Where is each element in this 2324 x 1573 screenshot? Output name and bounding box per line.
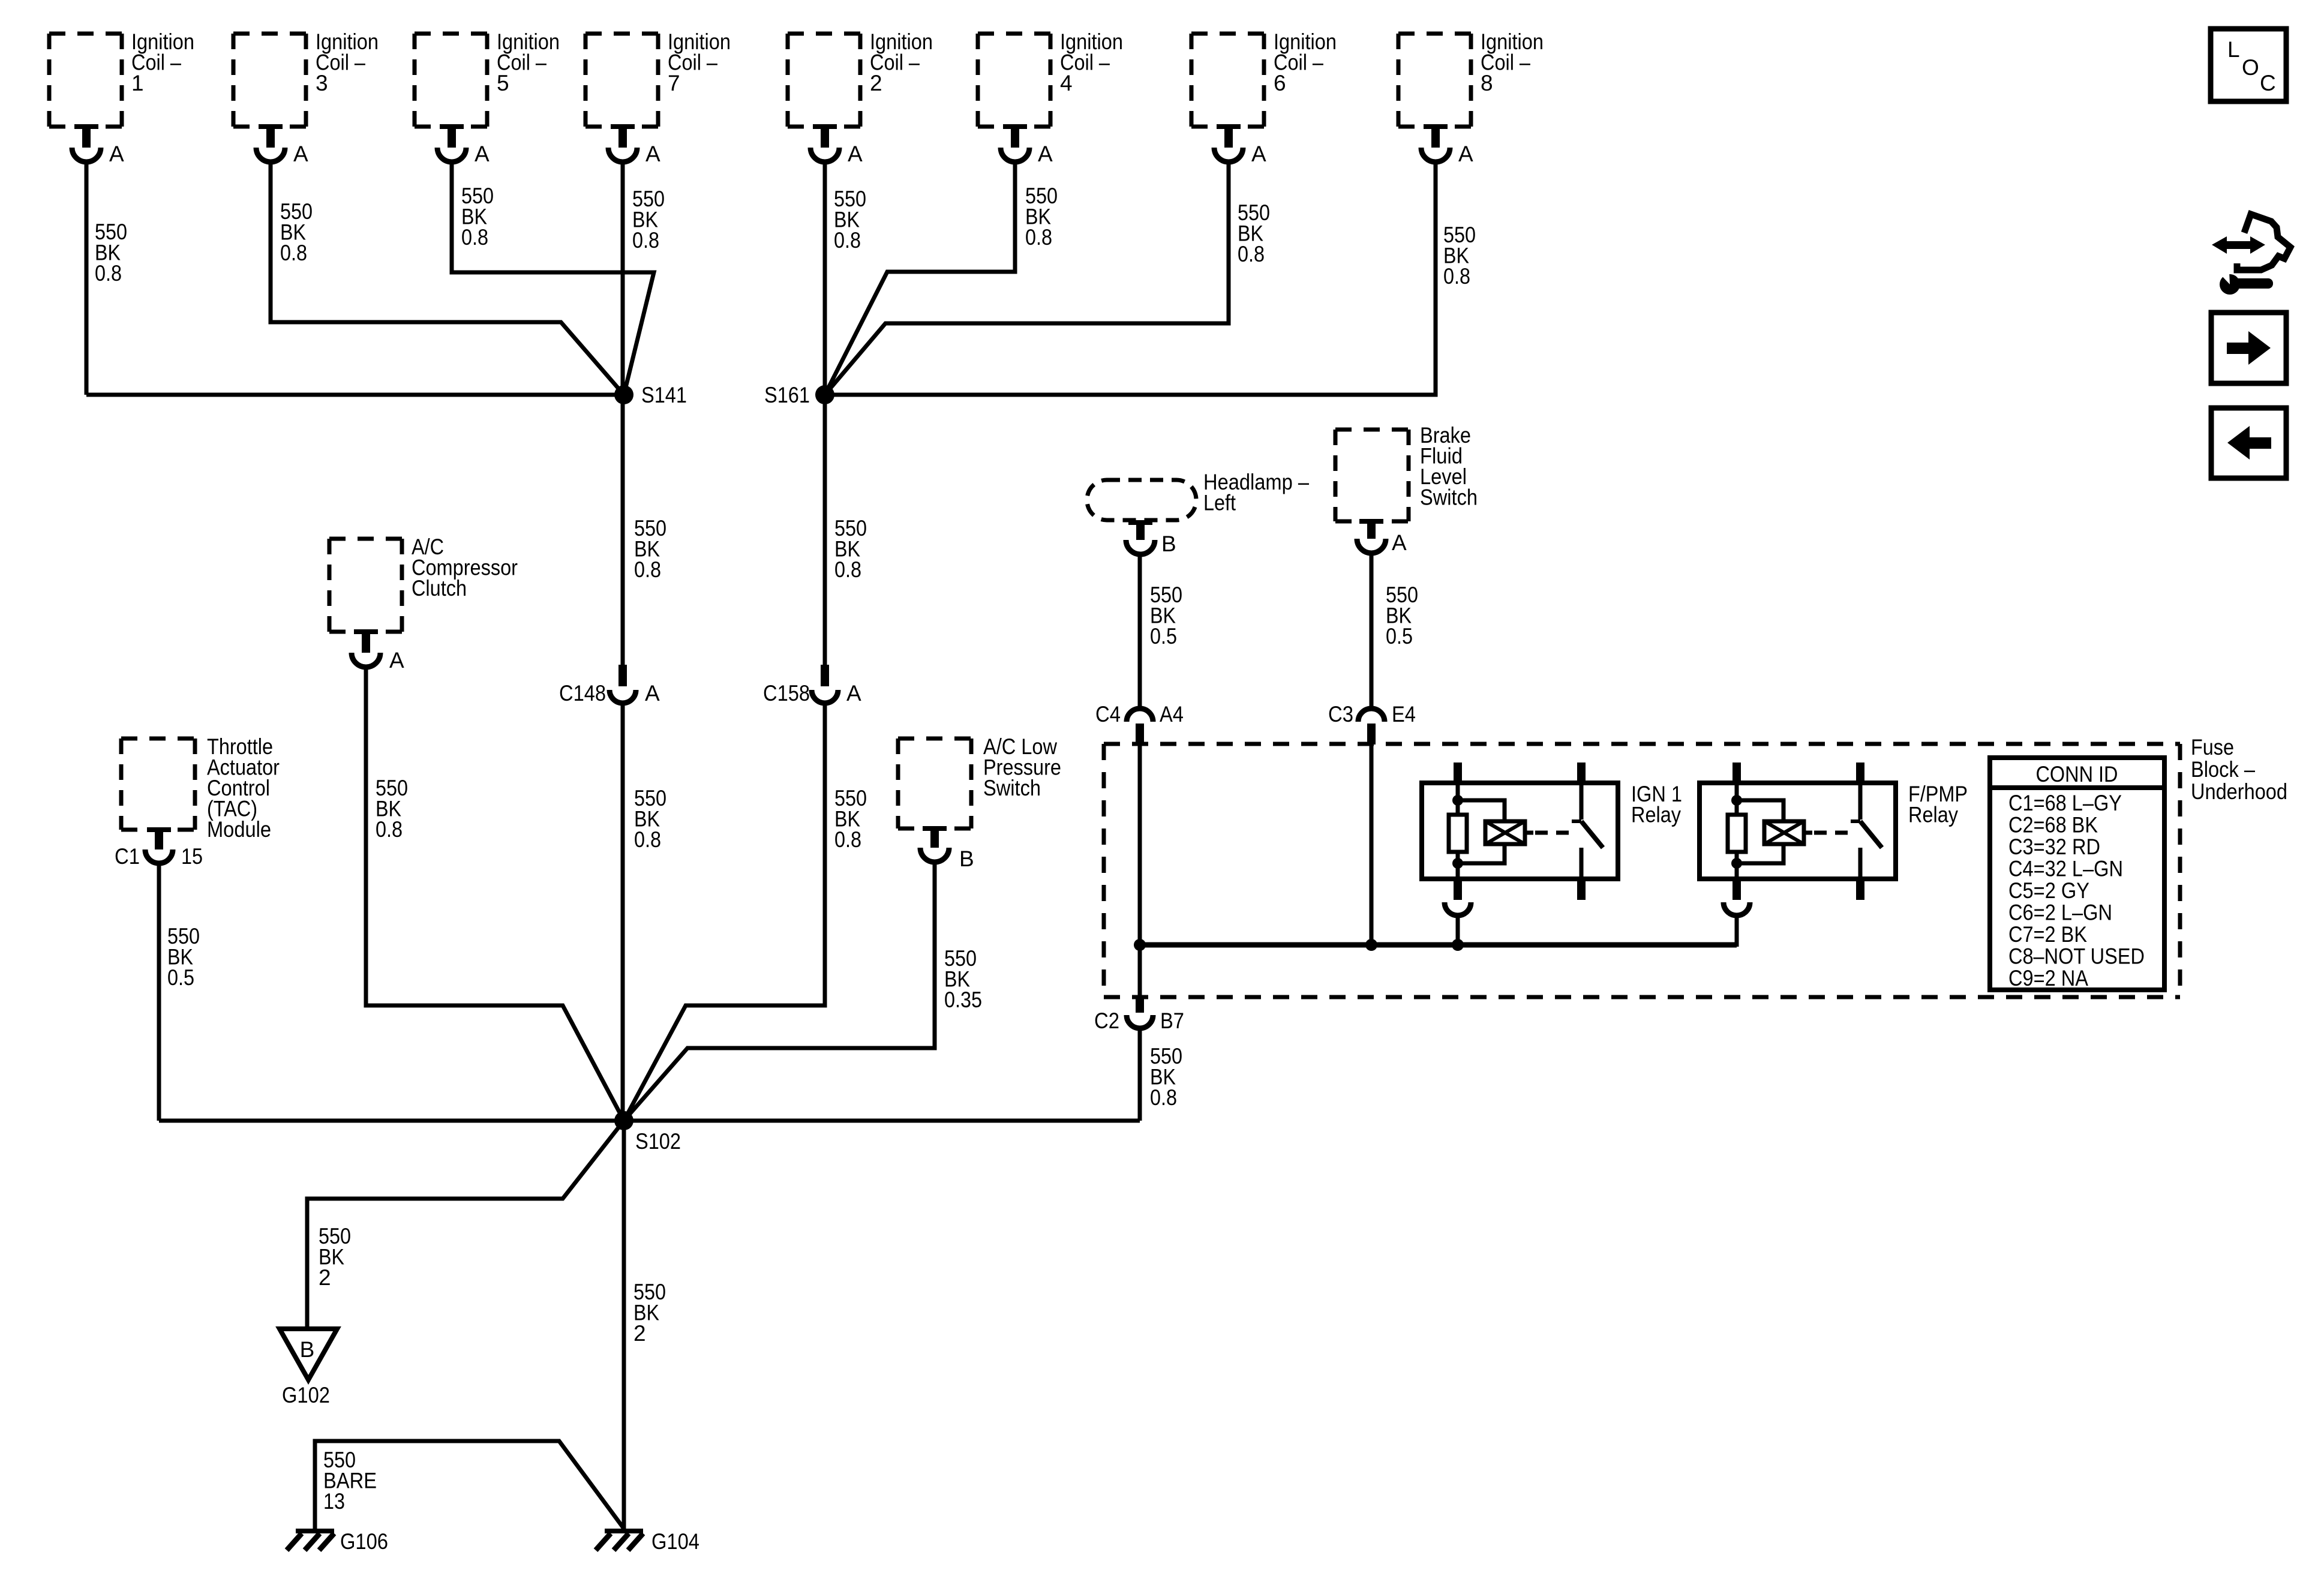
svg-text:4: 4 [1060,71,1073,95]
wire: A/C low pressure switch down, left, diagonal to S102 [624,862,935,1121]
svg-text:0.8: 0.8 [280,241,307,265]
svg-text:A: A [846,681,861,706]
svg-text:G104: G104 [651,1529,699,1554]
svg-text:C: C [2260,71,2276,95]
svg-text:C3=32 RD: C3=32 RD [2008,834,2100,859]
wire label 550 BK 0.35 (A/C low pressure switch) [944,946,982,1012]
svg-text:A: A [1038,142,1053,166]
svg-text:C4=32 L–GN: C4=32 L–GN [2008,857,2123,881]
relay F/PMP: switch blade [1851,819,1860,823]
svg-text:Clutch: Clutch [412,576,467,601]
svg-text:A: A [1251,142,1266,166]
CONN ID table rows [2008,791,2145,990]
ignition coil 3 box (dashed) [233,34,306,127]
svg-text:A: A [389,648,404,673]
svg-text:Underhood: Underhood [2191,779,2287,804]
wire label 550 BK 0.8 (coil 1) [95,220,127,286]
svg-text:C158: C158 [763,681,810,706]
TAC module label [207,734,280,842]
svg-text:CONN ID: CONN ID [2036,762,2118,786]
ignition coil 8 box (dashed) [1398,34,1471,127]
wire: ignition coil 8 pin A down and left to S161 [825,163,1436,395]
throttle actuator control (TAC) module box (dashed) [121,739,195,830]
wire: ignition coil 1 pin A down to S141 horizontal [85,163,89,395]
ignition coil 4 label [1060,29,1123,95]
relay IGN 1: suppression box with X [1485,821,1525,844]
wire: ignition coil 2 pin A trunk down through S161 [823,163,827,665]
svg-text:0.8: 0.8 [632,228,659,253]
wire label 550 BK 0.5 (TAC) [167,924,200,990]
svg-text:0.8: 0.8 [1238,242,1265,266]
wire: C3 down inside fuse block to internal bus [1370,745,1374,945]
junction dot C3 wire / bus [1365,939,1377,951]
wire label 550 BK 0.8 (C158 to S102) [834,786,867,852]
ignition coil 5 label [497,29,560,95]
wire label 550 BK 0.8 (coil 3) [280,199,313,265]
wire: horizontal from coil 1 drop to splice S141 [86,393,624,397]
svg-text:C7=2 BK: C7=2 BK [2008,922,2087,947]
wire: S102 horizontal (TAC C1 to C2) [159,1119,1140,1123]
relay IGN 1: coil bottom junction dot [1452,858,1463,869]
relay F/PMP: coil bottom junction dot [1731,858,1742,869]
relay IGN 1: switch blade [1572,819,1581,823]
check-connector service icon (double arrow, outline, wrench) [2212,214,2290,295]
ignition coil 8 label [1481,29,1544,95]
svg-text:C148: C148 [559,681,606,706]
brake fluid level switch label [1420,423,1478,510]
svg-text:C4: C4 [1095,702,1121,727]
svg-text:L: L [2227,37,2240,62]
wire: ignition coil 7 pin A trunk down through S141 [621,163,625,665]
svg-text:Relay: Relay [1631,803,1681,827]
wire: bus up to F/PMP relay coil connector [1735,917,1739,947]
ignition coil 3 label [316,29,379,95]
svg-text:Block –: Block – [2191,757,2255,782]
svg-text:S141: S141 [641,383,687,407]
ground G102 (triangle ground symbol) [280,1329,337,1380]
svg-text:A: A [645,681,660,706]
wire label 550 BK 0.8 (S161 to C158) [834,516,867,582]
wire label 550 BK 0.8 (coil 5) [461,184,494,250]
wire: C148 down to S102 [621,703,625,1121]
svg-text:Switch: Switch [1420,485,1478,510]
junction dot IGN 1 relay coil / bus [1452,939,1464,951]
svg-text:5: 5 [497,71,509,95]
svg-text:2: 2 [870,71,882,95]
svg-text:C2: C2 [1094,1008,1119,1033]
svg-text:C2=68 BK: C2=68 BK [2008,813,2098,837]
wire label 550 BK 0.8 (A/C clutch) [376,776,408,842]
svg-text:0.5: 0.5 [1150,624,1177,649]
wire: ignition coil 6 pin A down, left, diagonal to S161 [825,163,1229,395]
svg-text:C1=68 L–GY: C1=68 L–GY [2008,791,2122,815]
A/C low pressure switch label [983,734,1061,800]
relay IGN 1: coil top junction dot [1452,795,1463,806]
splice S141 junction dot [614,385,633,404]
ignition coil 1 pin A connector [72,124,101,162]
A/C compressor clutch box (dashed) [329,539,402,632]
ignition coil 7 box (dashed) [585,34,658,127]
fuse block - underhood label [2191,735,2287,804]
relay F/PMP: coil lead top [1735,783,1739,815]
connector C158 (in-line) [812,665,838,703]
ignition coil 7 pin A connector [608,124,637,162]
svg-text:B: B [300,1337,315,1362]
headlamp left label [1203,470,1309,515]
svg-text:Module: Module [207,817,271,842]
svg-text:Relay: Relay [1908,803,1958,827]
svg-text:A4: A4 [1160,702,1184,727]
svg-text:A: A [848,142,863,166]
svg-text:Left: Left [1203,491,1236,515]
splice S102 junction dot [614,1111,633,1130]
relay IGN 1: actuation dashed link [1535,831,1572,835]
relay F/PMP: actuation dashed link [1814,831,1851,835]
A/C low pressure switch pin B connector [920,826,949,862]
svg-text:0.5: 0.5 [167,965,194,990]
relay IGN 1: coil resistor element [1449,815,1467,852]
svg-text:0.8: 0.8 [1025,225,1052,250]
wire: brake fluid level switch down to C3 [1370,553,1374,709]
wire label 550 BK 0.8 (coil 8) [1443,223,1476,289]
wire label 550 BK 0.8 (coil 4) [1025,184,1058,250]
wire label 550 BK 2 (S102 to G102) [319,1224,351,1290]
svg-text:6: 6 [1274,71,1286,95]
svg-text:A: A [645,142,660,166]
svg-text:C8–NOT USED: C8–NOT USED [2008,944,2145,969]
headlamp left outline (dashed stadium) [1087,480,1196,520]
svg-text:3: 3 [316,71,328,95]
svg-text:A: A [109,142,124,166]
relay IGN 1: actuation link stub [1525,831,1533,835]
relay IGN 1: coil pin top stub [1454,763,1462,783]
wire label 550 BK 0.5 (brake fluid level switch) [1386,583,1418,649]
svg-text:0.35: 0.35 [944,987,982,1012]
LOC reference box [2211,29,2286,101]
wire label 550 BARE 13 (G106) [323,1448,377,1514]
relay F/PMP: coil pin top stub [1733,763,1741,783]
svg-text:0.8: 0.8 [95,261,122,286]
ground G106 symbol [287,1529,334,1550]
svg-text:0.5: 0.5 [1386,624,1413,649]
relay F/PMP: switch fixed contact bottom [1858,848,1863,879]
svg-text:S102: S102 [635,1129,681,1154]
svg-text:0.8: 0.8 [634,827,661,852]
wire: G106 branch (up, right, diagonal down to G104 point) [315,1441,624,1531]
relay F/PMP coil bottom connector [1724,879,1750,915]
svg-text:2: 2 [633,1321,646,1346]
wire: ignition coil 4 pin A down, left, diagonal to S161 [825,163,1015,395]
wire: S102 trunk down to G104 [622,1121,626,1531]
relay IGN 1: switch fixed contact bottom [1580,848,1584,879]
CONN ID table [1990,758,2164,990]
svg-text:0.8: 0.8 [1150,1085,1177,1110]
junction dot C4 wire / bus [1134,939,1146,951]
ignition coil 2 pin A connector [810,124,839,162]
wire label 550 BK 0.8 (C148 to S102) [634,786,666,852]
wire: ignition coil 3 pin A down, right, diagonal to S141 [271,163,624,395]
svg-text:7: 7 [668,71,680,95]
relay F/PMP: switch fixed contact top [1858,783,1863,819]
relay IGN 1: coil lead top [1456,783,1460,815]
wire label 550 BK 0.8 (coil 2) [834,187,866,253]
ignition coil 2 label [870,29,933,95]
svg-text:0.8: 0.8 [834,228,861,253]
svg-text:B: B [1161,532,1176,556]
A/C compressor clutch label [412,535,518,601]
A/C low pressure switch box (dashed) [898,739,971,828]
svg-text:0.8: 0.8 [834,827,861,852]
ignition coil 1 box (dashed) [49,34,122,127]
icon: wrench [2218,271,2273,295]
svg-text:C5=2 GY: C5=2 GY [2008,878,2089,903]
relay F/PMP: switch pin bottom stub [1856,879,1864,900]
svg-text:15: 15 [181,844,203,869]
wire label 550 BK 0.5 (headlamp) [1150,583,1182,649]
icon: double-headed arrow [2212,236,2265,254]
svg-text:0.8: 0.8 [1443,264,1470,289]
connector C148 (in-line) [609,665,636,703]
svg-text:8: 8 [1481,71,1493,95]
relay F/PMP: coil lead bottom [1735,852,1739,879]
svg-text:1: 1 [131,71,144,95]
ignition coil 4 pin A connector [1001,124,1029,162]
svg-text:Switch: Switch [983,776,1041,800]
ignition coil 5 pin A connector [437,124,466,162]
relay F/PMP: suppression element parallel loop [1737,800,1783,821]
svg-text:G102: G102 [282,1383,330,1407]
ignition coil 7 label [668,29,731,95]
wire: headlamp pin B down to C4 [1138,554,1142,709]
svg-text:A: A [475,142,490,166]
relay IGN 1: switch pin top stub [1577,763,1586,783]
svg-text:A: A [1458,142,1473,166]
ignition coil 2 box (dashed) [788,34,860,127]
relay IGN 1: coil lead bottom [1456,852,1460,879]
wire: S102 diagonal, left, down to ground G102 [307,1121,624,1331]
svg-text:A: A [293,142,308,166]
icon: connector outline [2237,214,2290,270]
brake fluid level switch box (dashed) [1335,430,1409,521]
relay F/PMP: outline box [1700,783,1896,879]
wire: TAC C1 pin 15 down to S102 horizontal [157,861,161,1121]
relay F/PMP: switch pin top stub [1856,763,1864,783]
TAC module pin 15 connector C1 [145,827,173,863]
svg-text:C9=2 NA: C9=2 NA [2008,966,2088,990]
svg-text:2: 2 [319,1265,331,1290]
wire: A/C compressor clutch down, right, diagonal to S102 [366,667,624,1121]
relay label IGN 1 Relay [1631,782,1682,827]
svg-text:C1: C1 [115,844,140,869]
wire: ignition coil 5 pin A down, right, diagonal to S141 [452,163,654,395]
relay label F/PMP Relay [1908,782,1968,827]
svg-text:B: B [959,846,974,871]
connector C4 pin A4 (fuse block top) [1127,709,1153,745]
splice S161 junction dot [815,385,834,404]
relay IGN 1: outline box [1422,783,1618,879]
forward page arrow box [2211,313,2286,383]
svg-text:C6=2 L–GN: C6=2 L–GN [2008,900,2112,925]
ignition coil 4 box (dashed) [978,34,1050,127]
ignition coil 6 pin A connector [1214,124,1243,162]
relay IGN 1 coil bottom connector [1445,879,1471,915]
svg-text:E4: E4 [1392,702,1416,727]
svg-text:G106: G106 [340,1529,388,1554]
fuse block - underhood (dashed boundary) [1104,744,2180,997]
svg-text:0.8: 0.8 [634,557,661,582]
wire: C2 down to S102 horizontal [1138,1028,1142,1121]
svg-text:0.8: 0.8 [834,557,861,582]
ignition coil 5 box (dashed) [415,34,487,127]
relay F/PMP: coil top junction dot [1731,795,1742,806]
svg-text:13: 13 [323,1489,345,1514]
wire label 550 BK 0.8 (coil 6) [1238,200,1270,266]
wire label 550 BK 2 (S102 to G104) [633,1280,666,1346]
wire label 550 BK 0.8 (C2 to S102) [1150,1044,1182,1110]
wire: fuse block internal ground bus [1140,942,1737,948]
relay IGN 1: switch pin bottom stub [1577,879,1586,900]
svg-text:A: A [1392,530,1407,555]
relay F/PMP: actuation link stub [1804,831,1812,835]
brake fluid level switch pin A connector [1357,519,1386,553]
wire label 550 BK 0.8 (S141 to C148) [634,516,666,582]
relay IGN 1: switch fixed contact top [1580,783,1584,819]
backward page arrow box [2211,408,2286,478]
svg-text:0.8: 0.8 [461,225,488,250]
headlamp pin B connector [1126,520,1155,554]
wire label 550 BK 0.8 (coil 7) [632,187,665,253]
wire: C4 down inside fuse block to internal bus and C2 [1138,745,1142,997]
relay F/PMP: suppression box with X [1764,821,1804,844]
svg-text:0.8: 0.8 [376,817,403,842]
svg-text:S161: S161 [764,383,810,407]
ignition coil 6 box (dashed) [1191,34,1264,127]
wire: C158 down, left, diagonal to S102 [624,703,825,1121]
connector C2 pin B7 (fuse block bottom) [1127,997,1153,1028]
connector C3 pin E4 (fuse block top) [1358,709,1385,745]
ignition coil 3 pin A connector [256,124,285,162]
svg-text:C3: C3 [1328,702,1353,727]
ignition coil 1 label [131,29,194,95]
relay IGN 1: suppression element parallel loop [1458,800,1505,821]
svg-text:O: O [2242,55,2259,80]
svg-text:Fuse: Fuse [2191,735,2234,760]
svg-text:B7: B7 [1160,1008,1184,1033]
ground G104 symbol [596,1529,643,1550]
ignition coil 6 label [1274,29,1337,95]
A/C compressor clutch pin A connector [352,629,380,667]
ignition coil 8 pin A connector [1421,124,1450,162]
relay F/PMP: coil resistor element [1728,815,1746,852]
